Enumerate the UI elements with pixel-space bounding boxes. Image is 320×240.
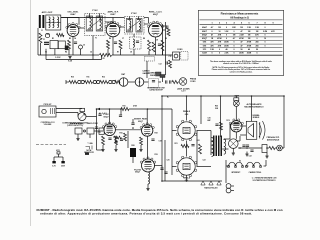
svg-text:6SQ7: 6SQ7	[135, 172, 140, 174]
svg-text:VOLUME: VOLUME	[44, 124, 52, 126]
svg-text:C1: C1	[43, 39, 45, 41]
svg-text:VOLTMETRO ELETTRONICO: VOLTMETRO ELETTRONICO	[252, 180, 276, 182]
svg-text:R9: R9	[165, 38, 167, 40]
svg-text:0: 0	[256, 38, 257, 40]
svg-text:AMPL. M.F.: AMPL. M.F.	[108, 10, 119, 13]
svg-text:0: 0	[226, 38, 227, 40]
svg-text:470: 470	[210, 41, 213, 44]
svg-text:C15: C15	[97, 132, 100, 134]
svg-text:C1: C1	[41, 30, 43, 32]
svg-text:0: 0	[233, 49, 234, 51]
svg-text:R19: R19	[154, 154, 157, 156]
svg-text:S1: S1	[45, 52, 47, 54]
svg-text:R16: R16	[119, 133, 122, 135]
svg-text:ANT. LOOP: ANT. LOOP	[42, 11, 53, 14]
svg-text:250K: 250K	[224, 45, 229, 47]
svg-text:0: 0	[226, 27, 227, 29]
svg-text:6SK7: 6SK7	[202, 31, 207, 33]
svg-text:10: 10	[264, 38, 266, 40]
svg-text:0: 0	[233, 53, 234, 55]
svg-text:8MF: 8MF	[207, 120, 210, 122]
svg-text:6SQ7: 6SQ7	[202, 34, 207, 36]
svg-text:6SK7: 6SK7	[110, 14, 116, 16]
svg-text:470: 470	[210, 44, 213, 47]
svg-text:R18: R18	[154, 133, 157, 135]
svg-text:2.2M: 2.2M	[263, 31, 268, 33]
svg-text:1* M.F.: 1* M.F.	[92, 10, 99, 12]
svg-text:INTERRUT.: INTERRUT.	[231, 172, 241, 174]
svg-text:R22: R22	[196, 140, 199, 142]
svg-text:10: 10	[218, 31, 220, 33]
svg-text:1.5K: 1.5K	[210, 49, 215, 51]
svg-text:40: 40	[248, 48, 250, 51]
svg-text:All Readings in Ω: All Readings in Ω	[230, 17, 249, 20]
svg-text:50: 50	[240, 49, 242, 51]
svg-text:0: 0	[219, 49, 220, 51]
svg-text:1.5K: 1.5K	[225, 31, 230, 33]
svg-text:R11: R11	[86, 76, 89, 78]
svg-text:ordinate di altor. Apparecchio: ordinate di altor. Apparecchio di produz…	[40, 212, 252, 216]
svg-text:R1: R1	[52, 38, 54, 40]
svg-text:6V6: 6V6	[203, 45, 206, 47]
svg-text:50: 50	[256, 49, 258, 51]
svg-text:R5: R5	[102, 58, 104, 60]
svg-text:1.5K: 1.5K	[255, 27, 260, 29]
svg-text:2* M.F.: 2* M.F.	[131, 13, 138, 15]
svg-text:S2: S2	[239, 161, 241, 163]
svg-text:Resistance Measurements: Resistance Measurements	[221, 12, 259, 16]
svg-text:2.5K: 2.5K	[225, 53, 230, 55]
svg-text:5Y3: 5Y3	[226, 120, 229, 122]
svg-text:40: 40	[225, 48, 227, 51]
svg-text:47: 47	[240, 30, 242, 33]
svg-text:0: 0	[211, 53, 212, 55]
svg-text:6SA7: 6SA7	[202, 26, 207, 29]
svg-text:C3: C3	[62, 36, 64, 38]
svg-text:R21: R21	[174, 143, 177, 145]
svg-text:R12: R12	[102, 76, 105, 78]
svg-text:0: 0	[233, 45, 234, 47]
svg-text:T1: T1	[95, 38, 97, 40]
svg-text:0: 0	[211, 31, 212, 33]
svg-text:470K: 470K	[217, 37, 222, 40]
svg-text:PICK-UP: PICK-UP	[44, 104, 53, 106]
svg-text:250K: 250K	[224, 42, 229, 44]
svg-text:CAPACITA IN MF: CAPACITA IN MF	[149, 89, 162, 92]
svg-text:1.5K: 1.5K	[247, 27, 252, 29]
svg-text:R10: R10	[71, 76, 74, 78]
svg-text:C22: C22	[202, 160, 205, 162]
svg-text:C32: C32	[248, 156, 251, 158]
svg-text:C20: C20	[166, 160, 169, 162]
svg-text:6SQ7: 6SQ7	[153, 14, 159, 16]
svg-text:MAGNETODINAMICO: MAGNETODINAMICO	[244, 106, 264, 109]
svg-text:0: 0	[264, 27, 265, 29]
svg-text:47: 47	[240, 41, 242, 44]
svg-text:B+: B+	[167, 97, 169, 99]
svg-text:switch in the Radio position.: switch in the Radio position.	[230, 71, 253, 74]
svg-text:R8: R8	[143, 38, 145, 40]
svg-text:6SQ7: 6SQ7	[202, 38, 207, 40]
svg-text:6SQ7: 6SQ7	[138, 121, 143, 123]
svg-text:R7: R7	[117, 52, 119, 54]
svg-text:C9: C9	[156, 40, 158, 42]
svg-text:R6: R6	[109, 38, 111, 40]
svg-text:470K: 470K	[247, 44, 252, 47]
svg-text:R2: R2	[69, 38, 71, 40]
svg-text:FONO: FONO	[190, 81, 196, 83]
svg-text:ADDIZIONALE: ADDIZIONALE	[267, 139, 280, 142]
svg-text:C18: C18	[158, 141, 161, 143]
svg-text:47: 47	[240, 44, 242, 47]
svg-text:5Y3: 5Y3	[203, 49, 206, 51]
svg-text:470K: 470K	[239, 37, 244, 40]
svg-text:4.7: 4.7	[211, 26, 214, 29]
svg-text:C12: C12	[158, 64, 161, 66]
svg-text:CAMBIO TENS.: CAMBIO TENS.	[249, 171, 262, 174]
svg-text:0: 0	[233, 42, 234, 44]
svg-text:250: 250	[255, 42, 258, 44]
svg-text:MASSA TELAIO: MASSA TELAIO	[204, 186, 218, 189]
svg-text:0: 0	[226, 34, 227, 36]
svg-text:RADIO-FONO: RADIO-FONO	[87, 122, 99, 125]
svg-text:0: 0	[233, 31, 234, 33]
svg-text:ONDE: ONDE	[150, 75, 156, 77]
svg-text:R15: R15	[122, 106, 125, 108]
svg-text:MOBILE: MOBILE	[253, 117, 260, 119]
svg-text:4.7: 4.7	[233, 37, 236, 40]
svg-text:6V6: 6V6	[203, 42, 206, 44]
svg-text:(VISTO DA SOTTO): (VISTO DA SOTTO)	[67, 124, 83, 127]
svg-text:470K: 470K	[247, 41, 252, 44]
svg-text:controls set at max. B = 1000: controls set at max. B = 1000 Ω M = 1 Mi…	[223, 62, 260, 65]
svg-text:0: 0	[264, 45, 265, 47]
svg-text:6: 6	[219, 53, 220, 55]
svg-text:260K: 260K	[239, 53, 244, 55]
svg-text:C6: C6	[90, 52, 92, 54]
svg-text:5 OSC: 5 OSC	[55, 57, 61, 59]
svg-text:C5: C5	[83, 45, 85, 47]
svg-text:S-28: S-28	[68, 60, 72, 62]
svg-text:47Ω: 47Ω	[56, 149, 60, 152]
svg-text:6SA7: 6SA7	[70, 13, 76, 16]
svg-text:0: 0	[264, 42, 265, 44]
svg-text:250: 250	[255, 45, 258, 47]
svg-text:47: 47	[211, 33, 213, 36]
svg-text:C8: C8	[130, 52, 132, 54]
svg-text:RIVEL.-C.A.V.: RIVEL.-C.A.V.	[149, 10, 163, 13]
svg-text:6SQ7: 6SQ7	[103, 117, 109, 119]
svg-text:FONO: FONO	[177, 49, 183, 51]
svg-text:R20: R20	[131, 145, 134, 147]
svg-text:C11: C11	[169, 56, 172, 58]
svg-text:260K: 260K	[247, 53, 252, 55]
svg-text:C7: C7	[122, 38, 124, 40]
svg-text:6: 6	[256, 53, 257, 55]
svg-text:0: 0	[264, 34, 265, 36]
svg-text:2.2M: 2.2M	[239, 34, 244, 36]
